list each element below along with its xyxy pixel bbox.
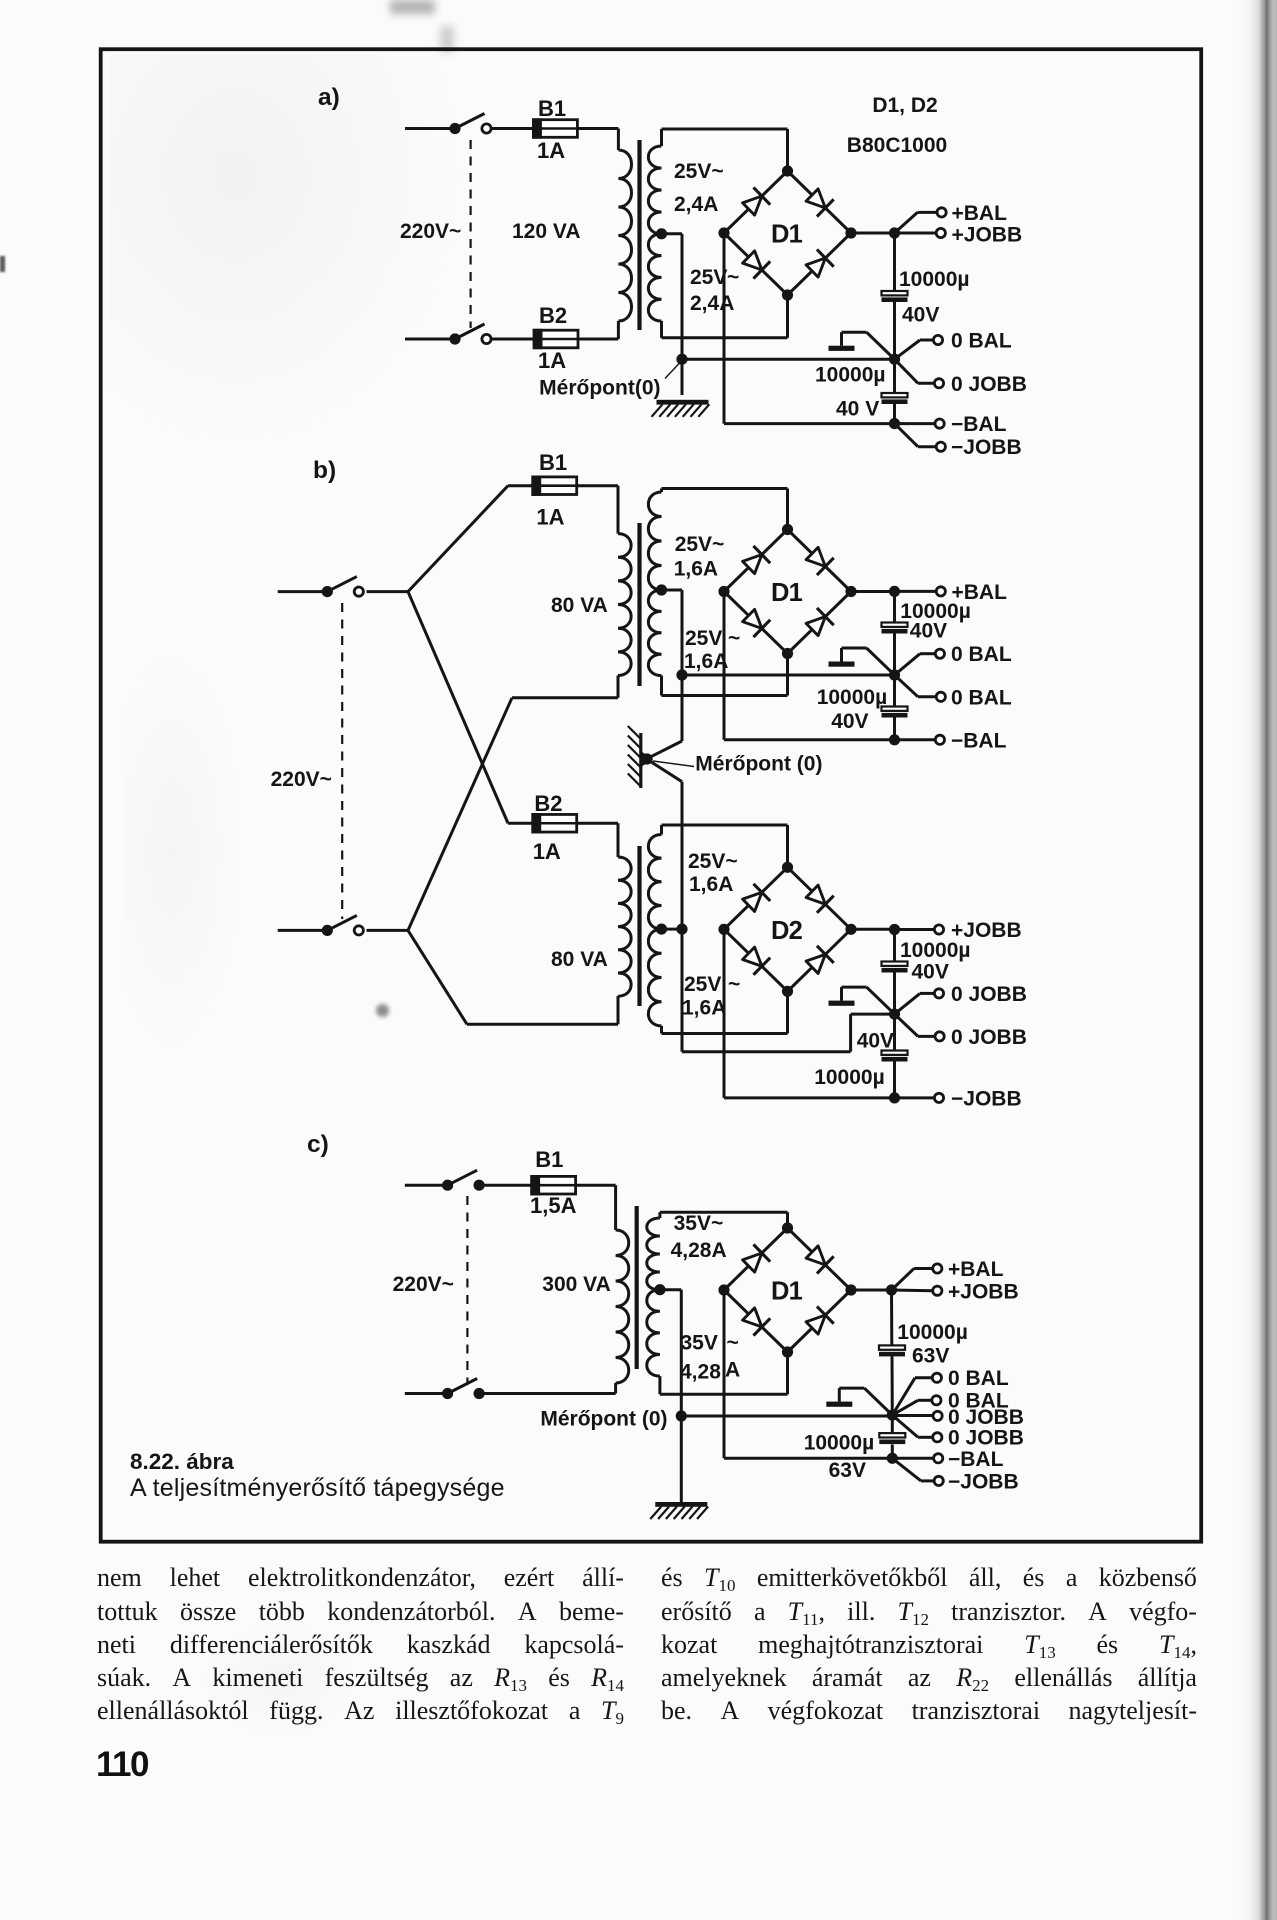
svg-text:25V~: 25V~ [674, 160, 724, 183]
svg-text:+BAL: +BAL [952, 202, 1008, 225]
svg-text:B2: B2 [539, 303, 567, 328]
svg-text:0 JOBB: 0 JOBB [951, 1026, 1027, 1049]
svg-text:40V: 40V [910, 620, 947, 643]
svg-text:25V: 25V [684, 973, 721, 996]
svg-text:c): c) [307, 1131, 329, 1158]
svg-text:10000µ: 10000µ [817, 686, 888, 709]
svg-text:1A: 1A [538, 348, 566, 373]
svg-text:a): a) [318, 84, 340, 111]
svg-text:1,6A: 1,6A [682, 997, 726, 1020]
svg-text:D2: D2 [771, 917, 803, 945]
svg-text:63V: 63V [912, 1345, 949, 1368]
svg-text:25V~: 25V~ [675, 533, 725, 556]
svg-text:D1: D1 [771, 1278, 803, 1306]
svg-text:−BAL: −BAL [951, 413, 1007, 436]
svg-text:40V: 40V [912, 961, 949, 984]
svg-text:1,5A: 1,5A [530, 1193, 577, 1218]
svg-text:−BAL: −BAL [948, 1448, 1004, 1471]
svg-text:~: ~ [727, 1332, 739, 1355]
svg-text:D1, D2: D1, D2 [872, 94, 937, 117]
svg-text:1A: 1A [537, 138, 565, 163]
svg-text:25V: 25V [690, 266, 727, 289]
svg-text:+JOBB: +JOBB [948, 1281, 1019, 1304]
svg-text:2,4A: 2,4A [690, 292, 734, 315]
svg-text:10000µ: 10000µ [815, 364, 886, 387]
svg-text:220V~: 220V~ [393, 1273, 454, 1296]
svg-text:35V: 35V [681, 1332, 718, 1355]
svg-text:B1: B1 [535, 1147, 563, 1172]
svg-text:25V~: 25V~ [688, 850, 738, 873]
svg-text:Mérőpont (0): Mérőpont (0) [695, 753, 822, 776]
svg-text:4,28: 4,28 [680, 1361, 721, 1384]
svg-text:−JOBB: −JOBB [951, 1088, 1022, 1111]
svg-text:0 JOBB: 0 JOBB [951, 983, 1027, 1006]
svg-text:~: ~ [728, 973, 740, 996]
svg-text:220V~: 220V~ [271, 768, 332, 791]
svg-text:0 JOBB: 0 JOBB [948, 1427, 1024, 1450]
svg-text:A: A [725, 1359, 740, 1382]
svg-text:80 VA: 80 VA [551, 948, 608, 971]
svg-text:D1: D1 [771, 221, 803, 249]
svg-text:120 VA: 120 VA [512, 220, 581, 243]
svg-text:10000µ: 10000µ [900, 939, 971, 962]
svg-text:2,4A: 2,4A [674, 193, 718, 216]
svg-text:1A: 1A [533, 839, 561, 864]
svg-text:10000µ: 10000µ [897, 1321, 968, 1344]
svg-text:+JOBB: +JOBB [952, 224, 1023, 247]
svg-text:−JOBB: −JOBB [951, 436, 1022, 459]
svg-text:40 V: 40 V [836, 398, 879, 421]
svg-text:−BAL: −BAL [951, 730, 1007, 753]
svg-text:1A: 1A [536, 505, 564, 530]
svg-text:10000µ: 10000µ [804, 1432, 875, 1455]
svg-text:63V: 63V [829, 1459, 866, 1482]
svg-text:~: ~ [728, 627, 740, 650]
svg-text:0 BAL: 0 BAL [951, 687, 1012, 710]
svg-text:B2: B2 [534, 791, 562, 816]
svg-text:0 BAL: 0 BAL [948, 1367, 1009, 1390]
svg-text:10000µ: 10000µ [899, 268, 970, 291]
svg-text:80 VA: 80 VA [551, 594, 608, 617]
svg-text:25V: 25V [685, 627, 722, 650]
svg-text:B1: B1 [539, 450, 567, 475]
svg-text:300 VA: 300 VA [542, 1273, 611, 1296]
svg-text:10000µ: 10000µ [814, 1066, 885, 1089]
svg-text:40V: 40V [857, 1030, 894, 1053]
svg-text:0 BAL: 0 BAL [951, 330, 1012, 353]
svg-text:b): b) [313, 457, 336, 484]
svg-text:0 JOBB: 0 JOBB [951, 373, 1027, 396]
svg-text:40V: 40V [902, 304, 939, 327]
svg-text:4,28A: 4,28A [671, 1239, 727, 1262]
svg-text:B1: B1 [538, 96, 566, 121]
svg-text:−JOBB: −JOBB [948, 1471, 1019, 1494]
svg-text:Mérőpont (0): Mérőpont (0) [540, 1408, 667, 1431]
svg-text:~: ~ [727, 266, 739, 289]
svg-text:D1: D1 [771, 579, 803, 607]
svg-text:1,6A: 1,6A [684, 650, 728, 673]
svg-text:Mérőpont(0): Mérőpont(0) [539, 377, 660, 400]
svg-text:0 BAL: 0 BAL [951, 643, 1012, 666]
svg-text:B80C1000: B80C1000 [847, 134, 947, 157]
svg-text:1,6A: 1,6A [674, 558, 718, 581]
svg-text:40V: 40V [831, 710, 868, 733]
svg-text:1,6A: 1,6A [689, 873, 733, 896]
svg-text:220V~: 220V~ [400, 220, 461, 243]
svg-text:35V~: 35V~ [674, 1212, 724, 1235]
svg-text:+BAL: +BAL [948, 1258, 1004, 1281]
